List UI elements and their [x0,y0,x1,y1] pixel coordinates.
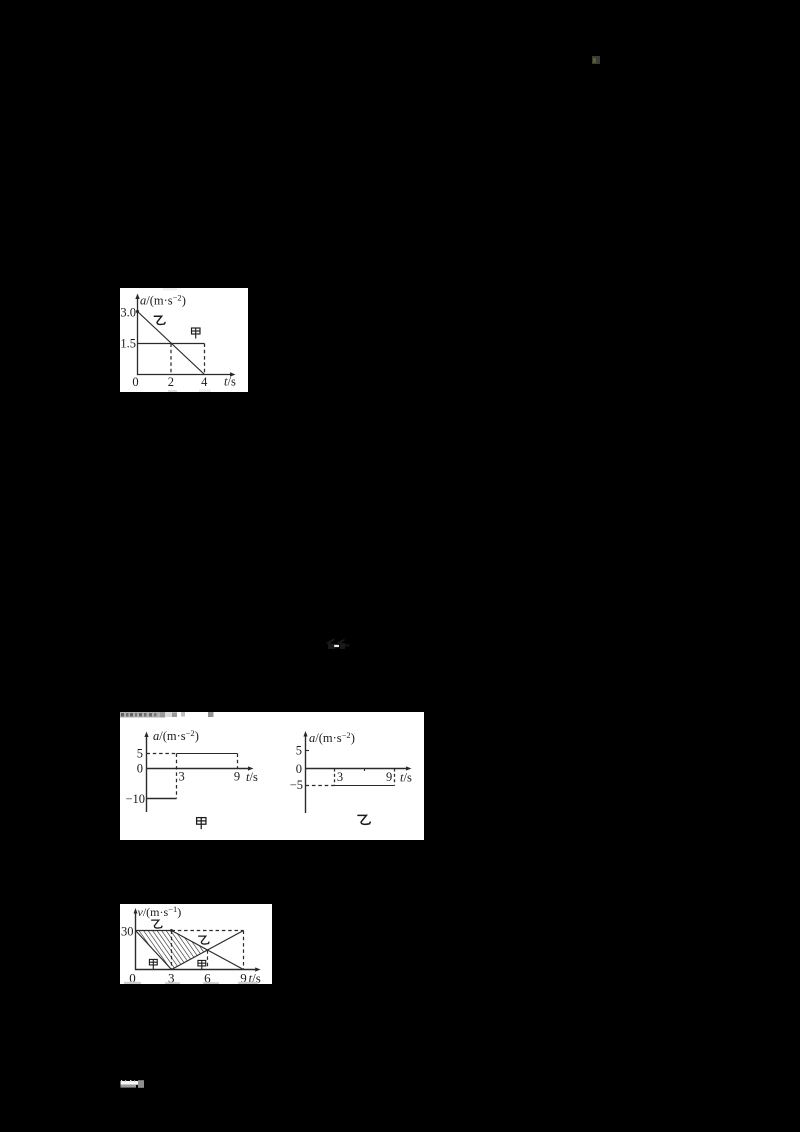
hatched region between curves [136,931,208,970]
y axis [137,297,139,375]
svg-text:30: 30 [121,925,134,939]
dashed 5-level 0..3 [147,753,177,755]
svg-text:9: 9 [234,770,240,784]
svg-text:5: 5 [137,747,143,761]
x axis [306,768,409,770]
svg-text:t/s: t/s [246,770,258,784]
y arrowhead [134,908,138,914]
dashed vertical t=6 [207,950,209,969]
svg-text:3: 3 [179,770,185,784]
dashed vertical t=2 [170,344,172,375]
svg-text:t/s: t/s [224,375,236,389]
dashed vertical t=3 from 5 to -10 [176,754,178,799]
svg-text:0: 0 [296,762,302,776]
bottom-left white/gray smudge [118,1078,148,1090]
faint marks + white dash near centre [322,633,352,651]
甲 ascending 3..9 [172,931,244,970]
dashed 30 level 3..9 [172,930,244,932]
svg-text:3.0: 3.0 [120,306,136,320]
glyph 乙 (right caption) [358,815,370,824]
svg-text:9: 9 [386,770,392,784]
y axis arrowhead [135,294,139,300]
svg-text:5: 5 [296,744,302,758]
tick t=6 [364,769,366,772]
solid -5 level 3..9 [335,785,395,787]
garbled gray strip at top edge [120,712,214,718]
glyph 乙 mid [199,936,209,944]
glyph 甲 (left caption) [197,818,206,830]
y arrowhead left [144,732,148,738]
glyph 甲 (line label) [192,328,201,339]
dashed vertical t=3 [171,931,173,970]
dashed vertical t=4 [204,344,206,375]
glyph 甲 right [198,960,206,970]
solid 5-level 3..9 [177,753,238,755]
svg-text:t/s: t/s [400,771,412,785]
dashed vertical t=9 [394,769,396,786]
svg-text:2: 2 [168,375,174,389]
dashed vertical t=3 [334,769,336,786]
y axis [305,735,307,814]
faint edge smudges [163,288,177,291]
dashed -5 level 0..3 [306,785,335,787]
y arrowhead right [303,731,307,737]
svg-text:6: 6 [204,971,211,985]
x arrowhead [255,967,260,971]
svg-text:4: 4 [201,375,208,389]
dashed vertical t=9 from 5 to 0 [237,754,239,769]
svg-text:1.5: 1.5 [120,336,136,350]
figure 2: two a-t graphs 甲 and 乙 [120,712,424,840]
faint gray smudges at bottom edge [124,982,258,984]
glyph 乙 upper [152,920,162,928]
dot at 3.0 [136,310,139,313]
x axis [138,374,233,376]
svg-text:3: 3 [337,770,343,784]
svg-text:−10: −10 [125,792,145,806]
figure 3: v-t graph with hatching [120,904,272,984]
small gray square top-right [592,56,600,64]
dashed vertical t=9 [243,931,245,970]
svg-text:0: 0 [132,375,138,389]
glyph 甲 left [149,959,157,969]
x axis [147,768,251,770]
x arrowhead left [248,766,254,770]
svg-text:−5: −5 [290,778,303,792]
x axis arrowhead [230,372,236,376]
line 乙 (diagonal 3.0 to 4s) [138,312,205,375]
line 甲 (horizontal at 1.5) [138,343,205,345]
乙 descending 3..9 [172,931,244,970]
x arrowhead right [406,766,412,770]
figure 1: a-t graph (甲/乙, 3.0/1.5) [120,288,248,392]
乙 flat 0..3 at 30 [136,930,172,932]
olive mark in square [593,58,596,64]
甲 descending 0..3 [136,931,172,970]
y axis [135,911,137,970]
svg-text:3: 3 [168,971,175,985]
glyph 乙 (curve label) [154,316,165,324]
x axis [136,969,258,971]
svg-text:0: 0 [137,762,143,776]
dot at (3,30) [170,929,173,932]
solid -10 line 0..3 [147,798,177,800]
tick 5 [306,750,310,752]
y axis [146,735,148,812]
